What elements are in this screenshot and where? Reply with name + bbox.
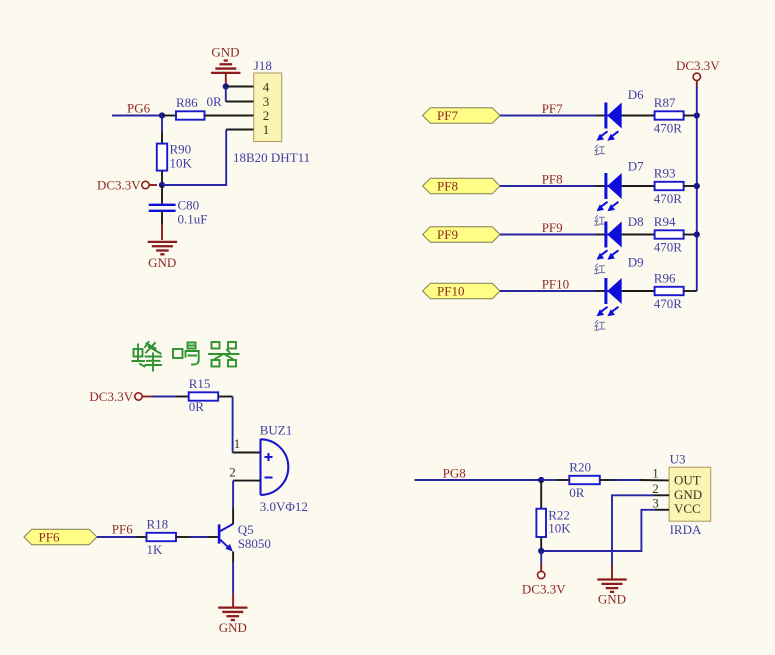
connector J18 body xyxy=(254,58,282,142)
svg-text:D7: D7 xyxy=(628,159,644,174)
pin J18.1 xyxy=(226,129,254,131)
wire PF7 to LED xyxy=(500,115,596,117)
svg-text:DC3.3V: DC3.3V xyxy=(522,582,566,597)
svg-text:3.0VΦ12: 3.0VΦ12 xyxy=(260,499,308,514)
svg-text:R86: R86 xyxy=(176,95,198,110)
svg-text:D9: D9 xyxy=(628,254,644,269)
resistor R15 xyxy=(189,376,219,414)
wire R94 to bus xyxy=(684,234,697,236)
svg-text:OUT: OUT xyxy=(674,472,701,487)
wire PG8 xyxy=(415,479,542,481)
svg-text:R18: R18 xyxy=(147,517,169,532)
svg-text:BUZ1: BUZ1 xyxy=(260,422,293,437)
label hong (red) for D7 xyxy=(595,215,605,225)
wire DC3.3V to R15 xyxy=(152,396,176,398)
pin U3.3 VCC xyxy=(655,509,669,511)
svg-text:2: 2 xyxy=(263,108,270,123)
wire R22 to node xyxy=(540,537,542,551)
svg-text:DC3.3V: DC3.3V xyxy=(89,389,133,404)
wire DC3.3V node to J18 pin 1 xyxy=(162,130,226,186)
wire LED to R87 xyxy=(622,115,655,117)
resistor R87 xyxy=(654,95,684,136)
junction node DC3.3V xyxy=(159,182,165,188)
svg-text:VCC: VCC xyxy=(674,501,701,516)
svg-text:2: 2 xyxy=(229,464,236,479)
svg-text:PF10: PF10 xyxy=(437,284,464,299)
junction node PG8 xyxy=(538,477,544,483)
svg-text:PF7: PF7 xyxy=(542,101,563,116)
svg-text:1: 1 xyxy=(263,122,270,137)
power port DC3.3V xyxy=(97,177,157,192)
LED D8 xyxy=(597,214,644,260)
svg-text:1: 1 xyxy=(234,436,241,451)
resistor R20 xyxy=(569,460,600,500)
transistor Q5 xyxy=(219,522,271,552)
wire node down to pin 3 xyxy=(225,87,227,102)
svg-text:PF6: PF6 xyxy=(39,530,60,545)
resistor R22 xyxy=(536,508,571,537)
svg-text:DC3.3V: DC3.3V xyxy=(97,177,141,192)
junction node PG6 xyxy=(159,112,165,118)
power port DC3.3V (buzzer) xyxy=(89,389,152,404)
capacitor C80 xyxy=(149,197,208,226)
junction node VCC xyxy=(538,548,544,554)
wire ground stem to pin 4 node xyxy=(225,73,227,87)
wire node to R20 xyxy=(541,479,556,481)
resistor R96 xyxy=(654,270,684,311)
resistor R18 xyxy=(147,517,177,557)
svg-text:R15: R15 xyxy=(189,376,211,391)
wire R87 to bus xyxy=(684,115,697,117)
svg-text:470R: 470R xyxy=(654,191,683,206)
svg-text:GND: GND xyxy=(211,44,239,59)
svg-text:GND: GND xyxy=(674,487,702,502)
input flag PF9 xyxy=(423,227,500,243)
svg-text:18B20 DHT11: 18B20 DHT11 xyxy=(233,150,310,165)
wire U3 pin3 to DC3.3V node xyxy=(541,510,655,551)
svg-text:R20: R20 xyxy=(569,460,591,475)
resistor R94 xyxy=(654,214,684,255)
pin BUZ1.2 xyxy=(233,480,260,482)
resistor R86 xyxy=(176,94,222,120)
svg-text:C80: C80 xyxy=(178,197,200,212)
svg-text:3: 3 xyxy=(263,94,270,109)
wire PG6 xyxy=(112,115,162,117)
svg-text:Q5: Q5 xyxy=(238,522,254,537)
svg-text:PF9: PF9 xyxy=(437,227,458,242)
wire C80 to ground xyxy=(161,211,163,224)
wire R15 to BUZ1 pin 1 xyxy=(218,396,232,398)
wire PG8 node down to R22 xyxy=(540,480,542,509)
svg-text:D6: D6 xyxy=(628,87,644,102)
svg-text:J18: J18 xyxy=(254,58,272,73)
wire node to DC3.3V port xyxy=(540,551,542,563)
wire R86 to J18 pin 2 xyxy=(205,115,254,117)
resistor R93 xyxy=(654,165,684,206)
svg-text:0R: 0R xyxy=(207,94,223,109)
wire PG6 node down to R90 xyxy=(161,116,163,133)
wire PF10 to LED xyxy=(500,290,596,292)
svg-text:0.1uF: 0.1uF xyxy=(178,211,208,226)
svg-text:GND: GND xyxy=(148,255,176,270)
wire R20 to U3 pin 1 xyxy=(600,479,614,481)
svg-text:470R: 470R xyxy=(654,296,683,311)
wire DC3.3V bus xyxy=(696,87,698,292)
label hong (red) for D8 xyxy=(595,264,605,274)
svg-text:PF6: PF6 xyxy=(112,522,133,537)
svg-text:PF9: PF9 xyxy=(542,220,563,235)
input flag PF8 xyxy=(423,178,500,194)
pin J18.4 xyxy=(226,86,254,88)
wire R18 to Q5 base xyxy=(176,536,191,538)
svg-text:0R: 0R xyxy=(569,485,585,500)
svg-text:U3: U3 xyxy=(670,452,686,467)
svg-text:S8050: S8050 xyxy=(238,536,271,551)
pin U3.2 GND xyxy=(654,494,669,496)
svg-text:PG8: PG8 xyxy=(443,466,466,481)
svg-text:PF10: PF10 xyxy=(542,277,569,292)
svg-text:470R: 470R xyxy=(654,121,683,136)
IC U3 body xyxy=(669,452,711,522)
svg-text:D8: D8 xyxy=(628,214,644,229)
power port DC3.3V (LED bus) xyxy=(676,58,720,87)
resistor R90 xyxy=(157,142,193,171)
svg-text:0R: 0R xyxy=(189,399,205,414)
svg-text:GND: GND xyxy=(598,592,626,607)
svg-text:1: 1 xyxy=(652,466,659,481)
junction xyxy=(694,231,700,237)
pin BUZ1.1 xyxy=(233,452,261,454)
svg-text:R90: R90 xyxy=(170,142,192,157)
wire node down to C80 xyxy=(161,185,163,205)
wire LED to R93 xyxy=(622,185,655,187)
wire LED to R96 xyxy=(622,290,655,292)
wire PF8 to LED xyxy=(500,185,596,187)
svg-text:PF7: PF7 xyxy=(437,108,458,123)
svg-text:PF8: PF8 xyxy=(437,179,458,194)
svg-text:R96: R96 xyxy=(654,270,676,285)
svg-text:PG6: PG6 xyxy=(127,101,151,116)
svg-text:GND: GND xyxy=(219,620,247,635)
svg-text:R94: R94 xyxy=(654,214,676,229)
LED D7 xyxy=(597,159,645,212)
svg-text:10K: 10K xyxy=(170,156,193,171)
ground GND below C80 xyxy=(148,242,177,254)
input flag PF7 xyxy=(423,108,500,124)
wire R96 to bus xyxy=(684,290,697,292)
label hong (red) for D6 xyxy=(595,145,605,155)
LED D6 xyxy=(597,87,645,141)
wire BUZ1 pin2 to Q5 collector xyxy=(232,481,234,508)
svg-text:4: 4 xyxy=(263,80,270,95)
wire PF9 to LED xyxy=(500,234,596,236)
svg-text:2: 2 xyxy=(652,481,659,496)
svg-text:10K: 10K xyxy=(548,520,571,535)
svg-text:DC3.3V: DC3.3V xyxy=(676,58,720,73)
input flag PF6 xyxy=(24,529,97,545)
ground GND above J18 xyxy=(211,44,239,59)
svg-text:1K: 1K xyxy=(147,542,164,557)
power port DC3.3V (IRDA) xyxy=(522,571,566,596)
pin J18.3 xyxy=(226,101,254,103)
wire Q5 emitter to ground xyxy=(232,552,234,563)
svg-text:470R: 470R xyxy=(654,240,683,255)
junction xyxy=(694,183,700,189)
input flag PF10 xyxy=(423,283,500,299)
wire U3 pin2 to ground xyxy=(612,495,654,565)
svg-text:PF8: PF8 xyxy=(542,172,563,187)
wire LED to R94 xyxy=(622,234,655,236)
label hong (red) for D9 xyxy=(595,320,605,330)
buzzer BUZ1 xyxy=(260,422,308,514)
svg-text:3: 3 xyxy=(652,496,659,511)
svg-text:R87: R87 xyxy=(654,95,676,110)
LED D9 xyxy=(597,254,644,316)
wire junction to R86 xyxy=(162,115,176,117)
title text fengmingqi (buzzer) xyxy=(133,342,239,371)
svg-text:R93: R93 xyxy=(654,165,676,180)
wire R93 to bus xyxy=(684,185,697,187)
ground GND (IRDA) xyxy=(597,580,626,592)
wire R90 to DC3.3V node xyxy=(161,171,163,185)
ground GND below Q5 xyxy=(218,608,247,620)
junction node pin4 xyxy=(223,83,229,89)
junction xyxy=(694,112,700,118)
wire PF6 to R18 xyxy=(97,536,136,538)
svg-text:IRDA: IRDA xyxy=(670,522,702,537)
